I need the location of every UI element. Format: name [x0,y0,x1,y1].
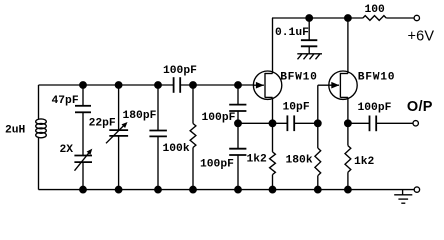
variable capacitor C3 22pF trimmer [106,85,128,190]
resistor R2 100 (supply decoupling) [363,16,386,21]
svg-text:100k: 100k [163,143,190,155]
wire: Q1 drain riser [272,18,274,74]
svg-text:+6V: +6V [408,28,435,44]
resistor R4 180k (Q2 gate leak) [315,123,321,189]
capacitor C8 0.1uF supply bypass [301,18,317,54]
wire: Q2 gate riser [317,85,319,123]
transistor Q1 BFW10 (JFET) [253,71,281,99]
wire: tank top rail (tuned circuit bus) [39,84,174,86]
svg-text:BFW10: BFW10 [280,71,318,83]
capacitor C6 100pF (gate to source divider) [229,85,246,123]
variable capacitor C2 2X (ganged tuning) [74,149,92,190]
ground symbol (3-bar) [394,190,412,204]
wire: Q1 source drop [272,97,274,123]
junction dots (all wire junctions) [80,15,351,193]
svg-text:180pF: 180pF [123,110,157,122]
capacitor C9 10pF interstage coupling [287,115,294,131]
terminal +6V [414,15,419,20]
svg-text:0.1uF: 0.1uF [275,27,309,39]
wire: Q2 source drop [347,97,349,123]
svg-text:100pF: 100pF [358,102,392,114]
transistor Q2 BFW10 (JFET) [329,71,357,99]
wire: Q1 gate line after series capacitor [180,84,254,86]
capacitor C10 100pF output coupling [348,116,413,132]
resistor R3 1k2 (Q1 source bias) [270,123,276,189]
svg-text:100pF: 100pF [202,112,236,124]
capacitor C4 180pF [149,85,167,190]
inductor L1 2uH [36,85,47,190]
wire: C9 to Q2 gate node [294,122,318,124]
svg-text:100pF: 100pF [200,158,234,170]
svg-text:47pF: 47pF [52,95,79,107]
svg-text:1k2: 1k2 [247,153,268,165]
wire: Q2 drain riser [347,18,349,74]
terminal ground [414,187,419,192]
svg-text:BFW10: BFW10 [358,71,396,83]
svg-text:100pF: 100pF [163,65,197,77]
svg-text:O/P: O/P [407,99,433,115]
svg-text:180k: 180k [286,154,313,166]
ground (hatched) under C8 [297,54,322,60]
svg-text:22pF: 22pF [89,118,116,130]
capacitor C1 47pF [75,85,91,156]
wire: ground rail [39,189,415,191]
svg-text:2uH: 2uH [5,124,26,136]
capacitor C7 100pF (divider to ground) [229,123,246,189]
resistor R5 1k2 (Q2 source bias) [345,123,351,189]
wire: R2 to +6V terminal [386,17,414,19]
wire: supply top rail [272,17,363,19]
terminal O/P [413,121,418,126]
svg-text:10pF: 10pF [283,102,310,114]
wire: Q1 source node to C9 [238,122,287,124]
svg-text:2X: 2X [60,144,74,156]
capacitor C5 100pF series coupling [174,77,181,93]
resistor R1 100k [190,85,196,190]
svg-text:1k2: 1k2 [354,156,375,168]
svg-text:100: 100 [365,4,386,16]
